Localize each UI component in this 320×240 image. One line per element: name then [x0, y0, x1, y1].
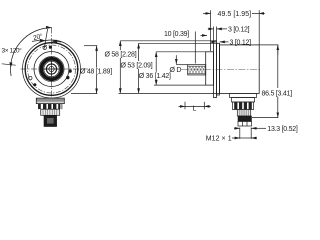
front view: 120 arc arrow top [46, 26, 52, 29]
dim Ø58: vertical line + arrows [119, 41, 121, 50]
front connector: socket dark square [44, 115, 57, 126]
front view: mounting hole top [43, 46, 46, 49]
side view: boss Ø36 [206, 52, 214, 85]
svg-text:3 [0.12]: 3 [0.12] [230, 40, 252, 47]
dim 3 #1: arrows + leader [208, 28, 214, 30]
dim Ø36: top tangent line [156, 51, 206, 53]
svg-text:49.5 [1.95]: 49.5 [1.95] [218, 11, 252, 18]
side connector: pleats [233, 102, 254, 110]
front view: mounting hole lower right [33, 83, 36, 86]
side view: shaft thread cross hatch [186, 65, 209, 75]
svg-text:Ø 36 [1.42]: Ø 36 [1.42] [139, 73, 171, 80]
front view: 20 deg arrow left [39, 39, 45, 42]
svg-text:Ø D: Ø D [170, 67, 182, 74]
svg-text:3× 120°: 3× 120° [2, 47, 23, 55]
front view: radial stub at arc end [2, 64, 16, 65]
dim L: extension lines [184, 102, 186, 110]
front view: horizontal centerline [21, 68, 89, 70]
dim 10: leader + arrow [201, 34, 208, 36]
dim L: line + arrows [179, 105, 186, 107]
front connector: top plate [36, 98, 64, 103]
dim Ø53: top tangent line [139, 42, 217, 44]
svg-text:Ø 48 [1.89]: Ø 48 [1.89] [80, 69, 112, 76]
svg-text:10 [0.39]: 10 [0.39] [164, 31, 189, 38]
front view: ring outline outer [39, 56, 64, 81]
front view: 20 deg radial line through top hole [44, 29, 47, 49]
front view: outer flange circle Ø58 [23, 40, 81, 98]
front view: pin hole filled at 20deg [49, 46, 52, 49]
front view: 120 deg arc [11, 28, 52, 77]
front view: inner circle r7.5 [44, 61, 59, 76]
dim 13.3: arrows + leader [234, 127, 240, 129]
dim 86.5: vertical + arrows [277, 45, 279, 55]
side connector: carrier [232, 98, 255, 103]
dim 3 #1: extension lines [213, 27, 215, 41]
side view: clamp ring Ø53 [217, 43, 220, 95]
front view: bolt circle Ø48 (dash-dot) [28, 45, 76, 93]
dim ØD: arrow down to shaft top [175, 55, 177, 64]
dim ØD: shaft top stub [176, 64, 188, 66]
svg-text:L: L [193, 106, 197, 113]
svg-text:86.5 [3.41]: 86.5 [3.41] [262, 90, 293, 97]
shared bottom tangent line to side view [119, 92, 220, 94]
dim Ø36: vertical + arrows [155, 52, 157, 72]
svg-text:Ø 53 [2.09]: Ø 53 [2.09] [121, 63, 153, 70]
dim 49.5: extension line left [210, 10, 212, 51]
front connector: knurl ring [41, 109, 60, 115]
dim 86.5: bottom tangent [252, 117, 278, 119]
front view: pin hole filled right [68, 69, 71, 72]
dim M12: leader + arrows [232, 137, 240, 139]
dim 13.3: extension lines [239, 128, 241, 139]
front view: screw slot [44, 68, 59, 70]
dim 10: extension line [194, 32, 196, 64]
front view: dark bearing ring [41, 59, 61, 79]
side connector: knurl [237, 110, 250, 116]
front view: mounting hole lower left [29, 76, 32, 79]
dim Ø48: top tangent stub [84, 45, 97, 47]
front view: boss circle Ø36 [34, 52, 69, 87]
front view: body circle Ø53 (thick) [25, 43, 78, 96]
svg-text:3 [0.12]: 3 [0.12] [228, 27, 250, 34]
svg-text:13.3 [0.52]: 13.3 [0.52] [267, 126, 298, 133]
front view: center screw circle [49, 66, 54, 71]
front view: vertical centerline [51, 28, 53, 105]
svg-text:Ø 58 [2.28]: Ø 58 [2.28] [105, 52, 137, 59]
dim Ø48: bottom tangent stub [71, 93, 97, 95]
front view: 20 deg arc [32, 40, 39, 41]
dim Ø53: vertical + arrows [138, 43, 140, 61]
front view: 120 arc arrow bottom [9, 62, 12, 67]
boss bottom tangent line [154, 84, 206, 86]
front view: pin hole filled lower right [66, 76, 69, 79]
front view: shaft circle Ø10 [46, 64, 56, 74]
dim 49.5: line + arrows [203, 12, 211, 14]
dim 3 #2: arrows + leader [211, 41, 216, 43]
front connector: pleats row [39, 104, 61, 110]
side connector: dark band [238, 116, 252, 121]
side view: centerline [181, 68, 262, 70]
dim 86.5: top tangent [259, 44, 278, 46]
side view: shaft outline [188, 65, 206, 75]
side view: body [220, 45, 260, 94]
side view: shaft thread band lines [188, 65, 206, 67]
dim Ø58: top tangent line [120, 40, 213, 42]
side connector: cells [238, 121, 252, 126]
front view: 20 deg arrow right [51, 40, 57, 43]
svg-text:M12 × 1: M12 × 1 [206, 135, 232, 142]
side view: flange Ø58 [214, 41, 217, 98]
dim 49.5: extension line right (body edge up) [258, 10, 260, 45]
dim Ø48: vertical + arrows [96, 46, 98, 68]
side connector: step plate [230, 93, 257, 97]
